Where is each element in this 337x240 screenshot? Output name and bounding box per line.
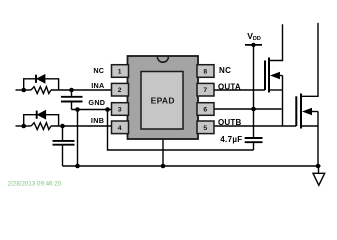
transistor Q1 [265,24,283,126]
junction dot rail/EPAD [161,164,166,169]
svg-text:4: 4 [118,125,122,132]
diode D2 [37,111,46,119]
pin 4 [112,121,129,134]
ground [313,166,325,185]
junction dot rail/GND drop [75,164,80,169]
wire diode D1 branch [24,79,59,90]
junction dot VDD / pin 6 [251,107,256,112]
U1 EPAD pad [141,72,183,130]
capacitor C2 [53,126,75,166]
svg-text:1: 1 [118,69,122,76]
pin 7 [197,83,214,96]
wire R2 to pin 4 [51,125,112,127]
wire OUTA to Q1 gate [214,89,265,91]
transistor Q2 [296,23,318,166]
junction dot INA/C1 [69,88,74,93]
wire diode D2 branch [24,115,59,126]
junction dot GND drop 1 [75,107,80,112]
wire GND drop to bottom rail [77,110,79,167]
pin 8 [197,65,214,78]
junction dot INA/D1 left [21,88,26,93]
wire bottom ground rail [63,165,321,167]
pin 5 [197,121,214,134]
svg-text:OUTB: OUTB [218,118,241,127]
svg-text:8: 8 [203,69,207,76]
junction dot INB/C2 [60,124,65,129]
wire INA input segment [16,89,32,91]
wire EPAD stub [162,139,164,166]
svg-text:5: 5 [203,125,207,132]
wire R1 to pin 2 [51,89,112,91]
wire pin 6 to VDD node [214,108,282,110]
svg-text:INA: INA [91,81,104,90]
wire GND to pin 3 [72,109,113,111]
svg-text:2/28/2013 09:46:20: 2/28/2013 09:46:20 [8,181,62,187]
junction dot rail/Q2 source [316,164,321,169]
svg-text:7: 7 [203,87,207,94]
op-amp U1 package body [128,56,199,139]
resistor R1 [31,87,51,94]
resistor R2 [31,123,51,130]
svg-text:6: 6 [203,107,207,114]
power VDD terminal [245,45,262,137]
svg-text:GND: GND [88,98,105,107]
junction dot VDD terminal [251,43,255,47]
pin 6 [197,103,214,116]
svg-text:EPAD: EPAD [151,96,175,106]
capacitor C1 [61,90,83,110]
svg-text:NC: NC [93,66,104,75]
svg-text:INB: INB [91,116,104,125]
junction dot GND drop 2 [105,107,110,112]
svg-text:OUTA: OUTA [218,82,241,91]
pin 1 [112,65,129,78]
svg-text:NC: NC [219,66,231,75]
svg-text:4.7µF: 4.7µF [220,135,242,144]
capacitor C3 4.7uF [245,138,263,150]
svg-text:2: 2 [118,87,122,94]
pin 2 [112,83,129,96]
svg-text:3: 3 [118,107,122,114]
svg-text:VDD: VDD [247,31,261,42]
diode D1 [36,75,45,83]
wire OUTB to Q2 gate [214,125,296,127]
pin 3 [112,103,129,116]
junction dot INB/D2 left [21,124,26,129]
wire GND drop to mid rail [108,110,254,151]
wire INB input segment [16,125,32,127]
